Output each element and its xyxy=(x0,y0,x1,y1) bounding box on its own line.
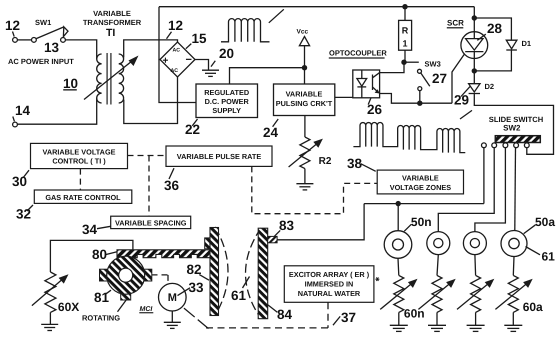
svg-text:SCR: SCR xyxy=(447,19,464,28)
wire dashed control links xyxy=(80,156,377,217)
svg-text:81: 81 xyxy=(94,290,110,305)
ground 20 xyxy=(202,69,219,71)
toroid 3 xyxy=(463,232,486,255)
wire dashed gear motor link MCI xyxy=(152,275,169,284)
transformer T1 primary xyxy=(97,54,102,103)
svg-text:Vcc: Vcc xyxy=(297,29,309,36)
svg-text:29: 29 xyxy=(454,93,469,108)
label asterisk xyxy=(375,277,379,281)
resistor R2 xyxy=(304,116,306,138)
svg-text:12: 12 xyxy=(168,18,183,33)
regulated dc power supply box 22 xyxy=(196,84,258,118)
svg-text:TI: TI xyxy=(106,27,115,39)
svg-text:R: R xyxy=(402,26,409,36)
SW2 contact circles xyxy=(482,143,487,148)
svg-text:VOLTAGE ZONES: VOLTAGE ZONES xyxy=(390,183,451,192)
node SCR cathode junction xyxy=(472,68,477,73)
wire secondary top to bridge xyxy=(124,40,178,58)
variable resistor 60a xyxy=(512,257,515,276)
wire coil lead diagonal xyxy=(269,9,284,22)
svg-text:VARIABLE VOLTAGE: VARIABLE VOLTAGE xyxy=(43,148,116,157)
svg-text:M: M xyxy=(168,292,177,304)
switch SW1 xyxy=(32,38,37,43)
svg-text:SUPPLY: SUPPLY xyxy=(212,106,241,115)
transformer core xyxy=(107,53,111,105)
svg-text:IMMERSED IN: IMMERSED IN xyxy=(305,280,354,289)
wire contact4 to toroid 4 xyxy=(514,148,517,231)
ground 60X xyxy=(41,323,58,325)
label lead 28 xyxy=(477,34,486,40)
toroid 50a xyxy=(501,231,527,257)
variable voltage zones box 38 xyxy=(377,170,463,194)
variable voltage control box 30 xyxy=(31,143,128,168)
svg-text:EXCITOR ARRAY ( ER ): EXCITOR ARRAY ( ER ) xyxy=(289,270,370,279)
wire rail to SCR xyxy=(473,7,475,32)
svg-text:SW2: SW2 xyxy=(503,124,521,133)
svg-text:TRANSFORMER: TRANSFORMER xyxy=(83,18,142,27)
svg-text:MCI: MCI xyxy=(140,306,154,313)
wire coil lead diagonal 2 xyxy=(460,110,472,119)
electrode 82 xyxy=(215,227,228,316)
svg-text:SW3: SW3 xyxy=(425,60,441,69)
ground R2 xyxy=(296,183,313,185)
transformer variable arrow xyxy=(84,59,135,100)
svg-text:AC: AC xyxy=(171,68,179,74)
diode D2 29 xyxy=(469,84,480,92)
node SCR anode junction xyxy=(472,15,477,20)
svg-text:50a: 50a xyxy=(535,215,555,229)
terminal 14 xyxy=(13,122,18,127)
svg-text:OPTOCOUPLER: OPTOCOUPLER xyxy=(329,49,387,58)
label lead 61 xyxy=(243,277,250,289)
svg-text:1: 1 xyxy=(402,39,407,49)
wire motor ground xyxy=(171,311,173,322)
wire dashed 37 enclosure xyxy=(182,302,328,328)
terminal 12 xyxy=(13,38,18,43)
diode D1 xyxy=(474,18,511,40)
svg-text:60n: 60n xyxy=(404,307,425,321)
svg-text:14: 14 xyxy=(15,103,31,118)
wire D2 to slide switch common xyxy=(474,94,553,155)
svg-text:D.C. POWER: D.C. POWER xyxy=(205,97,250,106)
wire contact1 down xyxy=(483,148,485,204)
wire bridge plus to rail and supply xyxy=(159,7,160,60)
wire SCR gate xyxy=(452,54,464,103)
wire top rail xyxy=(159,6,474,8)
inductor coil top xyxy=(221,19,269,42)
variable resistor 60n xyxy=(397,258,400,275)
wire contact3 to toroid 3 xyxy=(475,148,506,232)
gas rate control box 32 xyxy=(34,190,132,203)
variable pulsing circuit box 24 xyxy=(274,84,335,116)
wire pulsing to optocoupler xyxy=(335,96,353,98)
svg-text:D2: D2 xyxy=(485,82,495,91)
svg-text:AC POWER INPUT: AC POWER INPUT xyxy=(8,57,74,66)
svg-text:VARIABLE SPACING: VARIABLE SPACING xyxy=(115,218,187,227)
wire contact2 to toroid 2 xyxy=(438,148,494,232)
motor M 33 xyxy=(159,283,187,311)
SCR U1 28 xyxy=(461,32,488,59)
wire supply top to vcc node xyxy=(230,68,305,84)
wire zone bus xyxy=(364,203,484,205)
svg-text:+: + xyxy=(163,56,169,67)
optocoupler U2 26 xyxy=(353,70,380,98)
svg-text:GAS RATE CONTROL: GAS RATE CONTROL xyxy=(45,193,121,202)
variable resistor 3 xyxy=(474,255,477,276)
wire spacing bus xyxy=(50,240,132,272)
variable pulse rate box 36 xyxy=(166,146,272,166)
toroid 50n xyxy=(384,231,412,259)
svg-text:22: 22 xyxy=(185,122,200,137)
label lead 26 xyxy=(368,98,371,105)
svg-text:VARIABLE PULSE RATE: VARIABLE PULSE RATE xyxy=(177,152,262,161)
svg-text:80: 80 xyxy=(92,247,107,262)
svg-text:30: 30 xyxy=(12,174,27,189)
svg-text:13: 13 xyxy=(44,40,60,55)
svg-text:61: 61 xyxy=(542,250,556,264)
svg-text:84: 84 xyxy=(277,307,293,322)
bridge rectifier 15 xyxy=(160,42,195,77)
connector 83 xyxy=(268,236,277,242)
ground motor xyxy=(164,321,181,323)
wire bridge minus to ground xyxy=(195,60,209,70)
node vcc junction xyxy=(302,65,307,70)
svg-text:38: 38 xyxy=(347,156,363,171)
svg-text:24: 24 xyxy=(263,125,279,140)
node SW3 emitter junction xyxy=(417,101,422,106)
node R1 opto SW3 junction xyxy=(401,60,406,65)
svg-text:60X: 60X xyxy=(58,300,79,314)
wire opto collector xyxy=(380,62,404,72)
wire to toroid 1 xyxy=(397,204,399,231)
svg-text:R2: R2 xyxy=(319,156,332,167)
transformer T1 secondary xyxy=(119,54,124,103)
svg-text:82: 82 xyxy=(187,262,202,277)
svg-text:83: 83 xyxy=(279,218,295,233)
svg-text:VARIABLE: VARIABLE xyxy=(286,90,323,99)
svg-text:27: 27 xyxy=(432,71,447,86)
svg-text:34: 34 xyxy=(82,222,98,237)
svg-text:26: 26 xyxy=(367,102,383,117)
svg-text:AC: AC xyxy=(173,48,181,54)
node zone bus junction xyxy=(396,201,401,206)
svg-text:28: 28 xyxy=(487,21,503,36)
wire xyxy=(65,40,96,59)
svg-text:15: 15 xyxy=(192,31,208,46)
slide switch SW2 bar xyxy=(495,136,540,143)
svg-text:CONTROL ( TI ): CONTROL ( TI ) xyxy=(52,157,106,166)
label lead 15 xyxy=(186,44,192,49)
variable resistor 60X xyxy=(45,272,56,312)
gear 81 xyxy=(100,269,111,281)
rack 80 xyxy=(117,250,214,258)
electrode 84 xyxy=(246,228,262,319)
wire xyxy=(17,39,31,41)
svg-text:D1: D1 xyxy=(522,39,532,48)
svg-text:PULSING CRK'T: PULSING CRK'T xyxy=(276,99,333,108)
resistor R1 xyxy=(404,7,406,21)
Vcc symbol xyxy=(299,37,309,46)
label lead rotating xyxy=(118,300,127,312)
svg-text:32: 32 xyxy=(16,206,31,221)
svg-text:37: 37 xyxy=(341,310,356,325)
variable spacing box 34 xyxy=(111,216,191,228)
inductor zone coils xyxy=(353,123,465,153)
toroid 2 xyxy=(427,232,450,255)
wire secondary bottom to bridge xyxy=(124,77,178,124)
svg-text:60a: 60a xyxy=(523,300,543,314)
wire xyxy=(17,98,96,124)
svg-text:12: 12 xyxy=(5,18,20,33)
svg-text:REGULATED: REGULATED xyxy=(204,88,249,97)
svg-text:ROTATING: ROTATING xyxy=(82,314,120,323)
svg-text:50n: 50n xyxy=(411,215,432,229)
svg-text:61: 61 xyxy=(231,288,247,303)
svg-text:33: 33 xyxy=(189,280,205,295)
label lead 12 bridge xyxy=(167,32,172,39)
wire opto emitter to gate xyxy=(380,94,452,104)
svg-text:SW1: SW1 xyxy=(35,18,51,27)
svg-text:20: 20 xyxy=(219,46,234,61)
switch SW3 27 xyxy=(404,61,419,63)
svg-text:−: − xyxy=(186,54,192,66)
variable resistor 2 xyxy=(437,255,438,276)
svg-text:NATURAL WATER: NATURAL WATER xyxy=(298,289,361,298)
node rail R1 junction xyxy=(402,4,407,9)
svg-text:10: 10 xyxy=(63,76,78,91)
excitor array box 37 xyxy=(284,266,374,303)
svg-text:VARIABLE: VARIABLE xyxy=(93,9,131,18)
svg-text:VARIABLE: VARIABLE xyxy=(402,174,439,183)
svg-text:36: 36 xyxy=(164,178,180,193)
